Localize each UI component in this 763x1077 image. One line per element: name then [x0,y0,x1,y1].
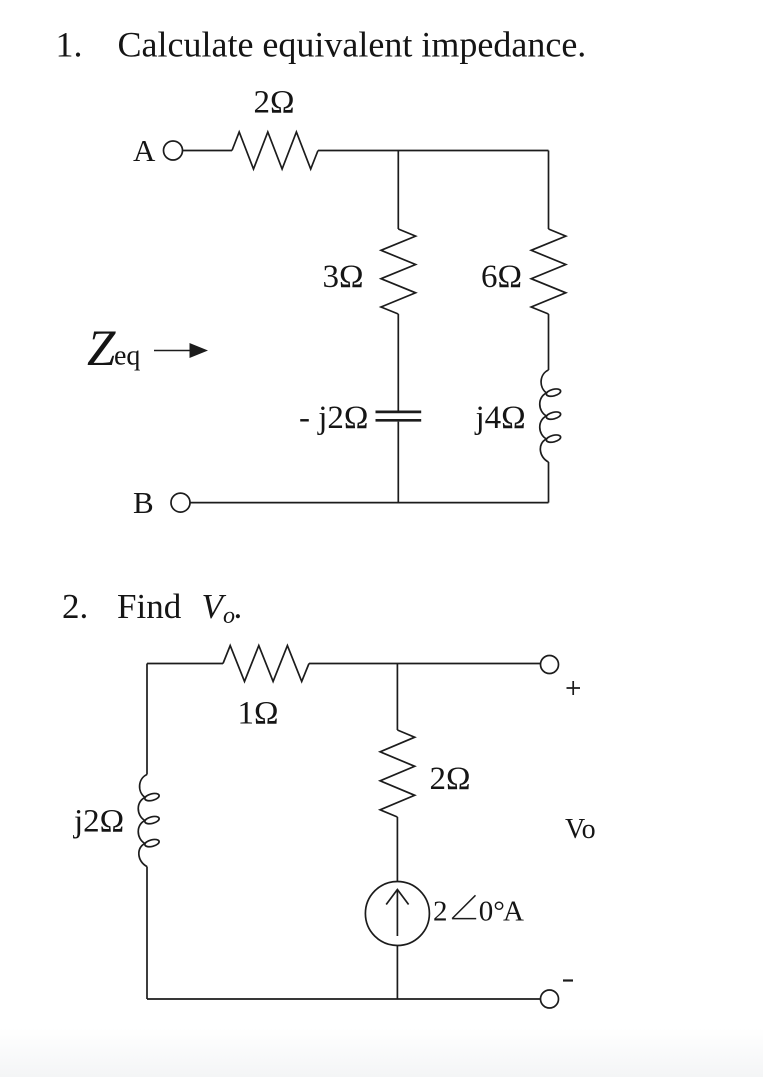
svg-text:B: B [133,485,154,520]
svg-text:j4Ω: j4Ω [475,400,526,436]
svg-text:j2Ω: j2Ω [73,804,124,840]
svg-text:2: 2 [433,896,448,928]
svg-text:Z: Z [87,321,116,377]
svg-text:Find: Find [117,587,182,626]
svg-text:A: A [503,896,524,928]
svg-text:6Ω: 6Ω [481,259,522,295]
svg-text:1.: 1. [56,25,83,65]
svg-text:2Ω: 2Ω [430,761,471,797]
svg-text:2Ω: 2Ω [254,85,295,121]
svg-text:2.: 2. [62,587,88,626]
svg-text:0°: 0° [479,896,505,928]
svg-text:- j2Ω: - j2Ω [299,400,368,436]
svg-text:3Ω: 3Ω [323,259,364,295]
svg-text:Calculate equivalent impedance: Calculate equivalent impedance. [118,25,587,65]
svg-text:A: A [133,133,156,168]
svg-text:.: . [234,587,243,626]
svg-text:eq: eq [114,341,140,372]
svg-text:1Ω: 1Ω [238,696,279,732]
svg-text:Vo: Vo [565,814,596,845]
